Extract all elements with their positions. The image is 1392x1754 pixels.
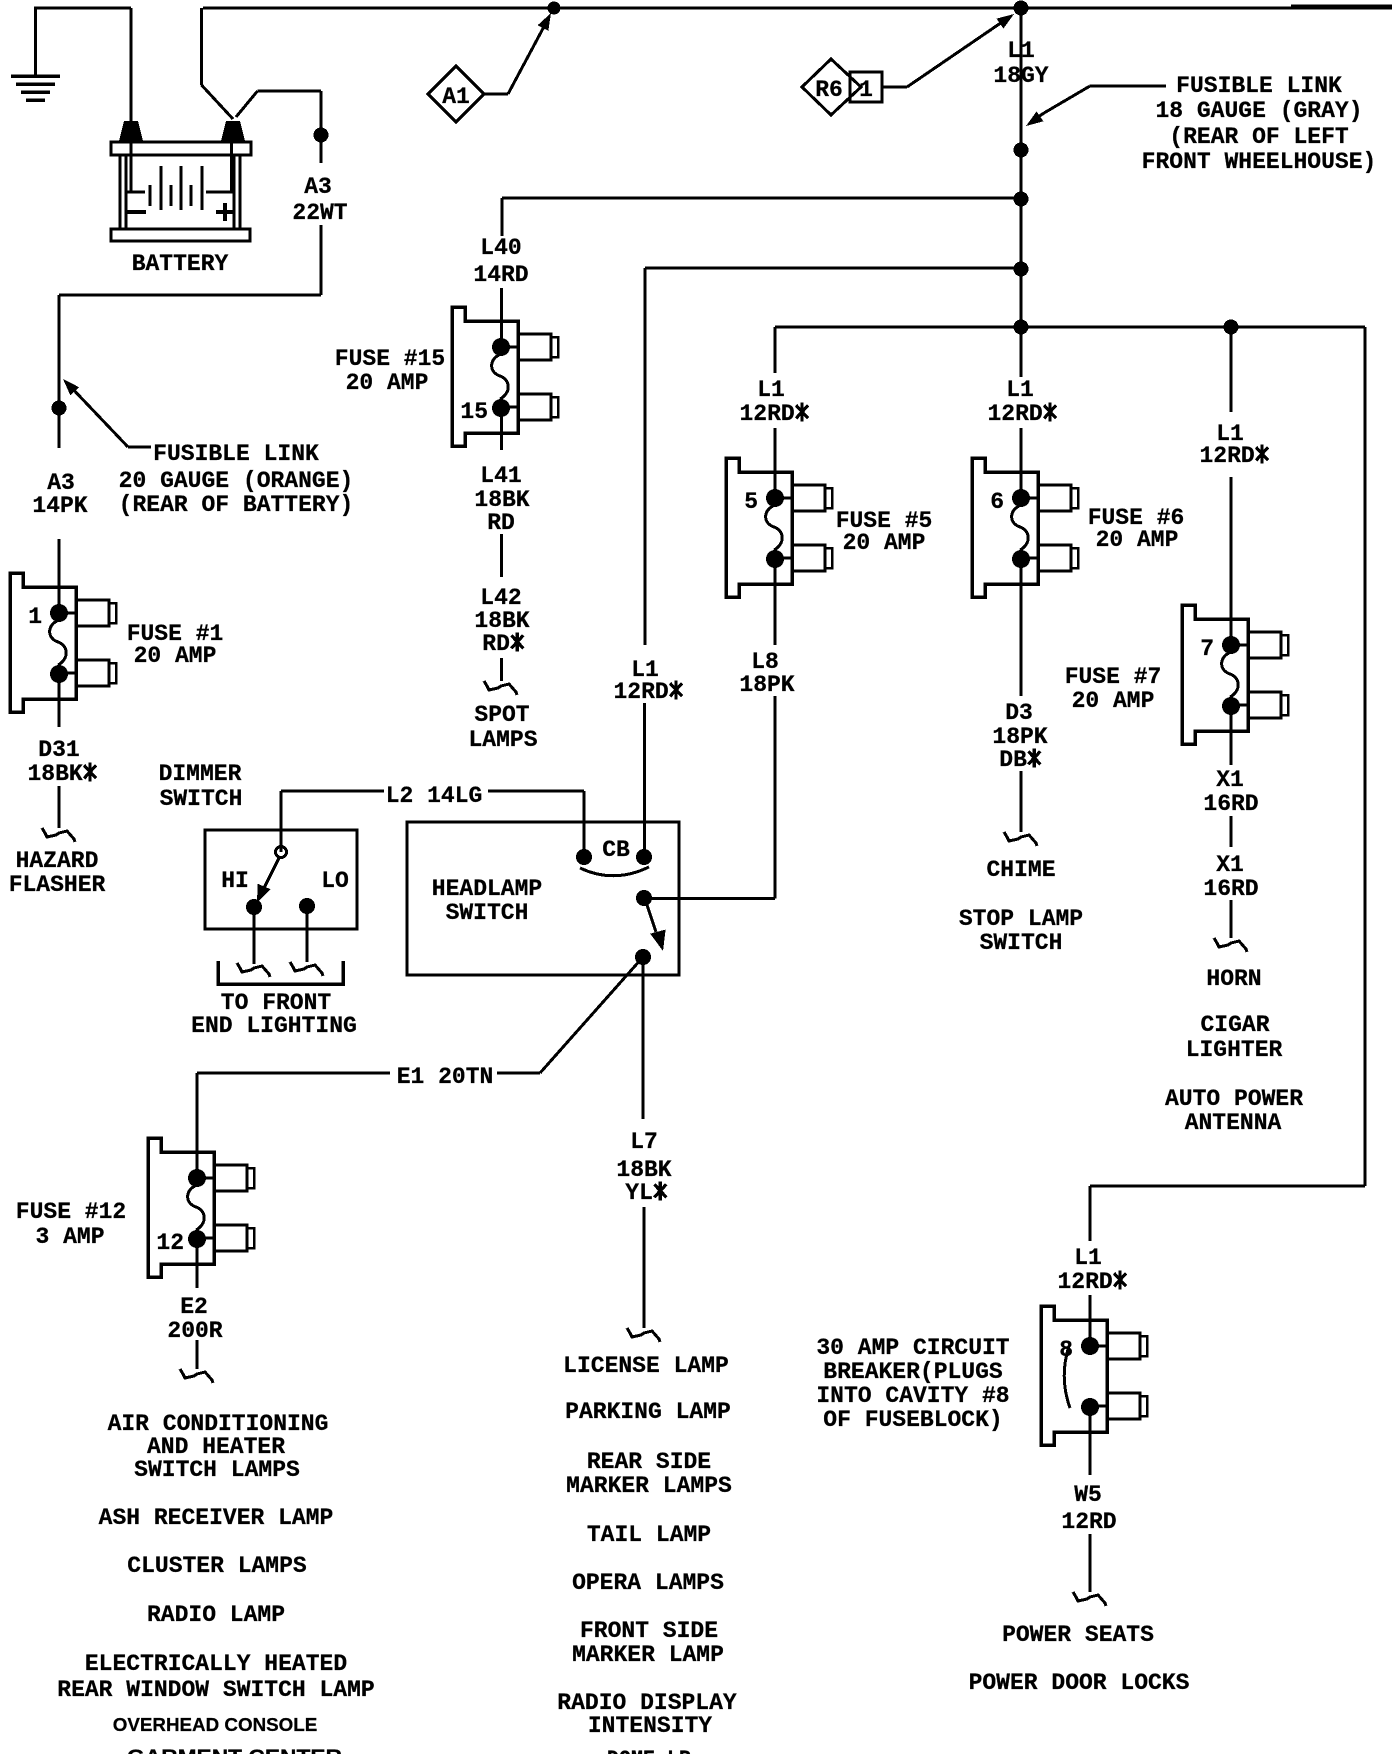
fusible link 20 gauge callout leader bbox=[128, 446, 151, 449]
wire D31 tail bbox=[58, 786, 61, 828]
svg-text:15: 15 bbox=[460, 399, 488, 425]
svg-text:FUSIBLE LINK: FUSIBLE LINK bbox=[153, 441, 319, 467]
svg-text:HEADLAMP: HEADLAMP bbox=[432, 876, 542, 902]
fuse #5 in fuseblock cavity 5 bbox=[726, 458, 832, 597]
fuse #12 in fuseblock cavity 12 bbox=[148, 1138, 254, 1277]
wire E1 into fuse 12 bbox=[196, 1073, 199, 1178]
svg-text:CIGAR: CIGAR bbox=[1200, 1012, 1269, 1038]
wire X1 tail bbox=[1230, 900, 1233, 938]
svg-text:FUSE #15: FUSE #15 bbox=[335, 346, 445, 372]
svg-text:L1: L1 bbox=[757, 377, 785, 403]
wire L2 14LG run right segment bbox=[488, 790, 584, 793]
wire X1 segment bbox=[1230, 816, 1233, 847]
svg-text:TAIL LAMP: TAIL LAMP bbox=[587, 1522, 711, 1548]
wire L40 into fuse 15 bbox=[500, 288, 503, 347]
svg-text:E1 20TN: E1 20TN bbox=[397, 1064, 494, 1090]
wire D31 from fuse 1 bbox=[58, 674, 61, 727]
svg-text:OF FUSEBLOCK): OF FUSEBLOCK) bbox=[823, 1407, 1002, 1433]
svg-text:14RD: 14RD bbox=[473, 262, 528, 288]
wire drop to fuse 6 bbox=[1020, 327, 1023, 373]
svg-text:1: 1 bbox=[859, 77, 873, 103]
svg-text:STOP LAMP: STOP LAMP bbox=[959, 906, 1083, 932]
dimmer switch common contact bbox=[276, 847, 287, 858]
dimmer switch blade arrow bbox=[264, 858, 279, 888]
svg-text:HORN: HORN bbox=[1206, 966, 1261, 992]
svg-text:MARKER LAMPS: MARKER LAMPS bbox=[566, 1473, 732, 1499]
svg-text:OVERHEAD CONSOLE: OVERHEAD CONSOLE bbox=[113, 1714, 318, 1735]
svg-text:L1: L1 bbox=[1007, 38, 1035, 64]
svg-text:GARMENT CENTER: GARMENT CENTER bbox=[127, 1746, 342, 1754]
fusible link 18 gauge callout leader bbox=[1090, 85, 1166, 88]
wire top run right jog bbox=[1291, 5, 1392, 8]
svg-text:ANTENNA: ANTENNA bbox=[1185, 1110, 1282, 1136]
wire drop to fuse 7 bbox=[1230, 327, 1233, 412]
svg-text:16RD: 16RD bbox=[1203, 791, 1258, 817]
wire L40 drop bbox=[501, 198, 504, 236]
svg-text:ELECTRICALLY HEATED: ELECTRICALLY HEATED bbox=[85, 1651, 347, 1677]
connector R6 pin 1 bbox=[802, 59, 882, 115]
svg-text:CB: CB bbox=[602, 837, 630, 863]
svg-text:12RD: 12RD bbox=[739, 401, 794, 427]
svg-text:HI: HI bbox=[221, 868, 249, 894]
fuse #1 in fuseblock cavity 1 bbox=[10, 573, 116, 712]
svg-text:ASH RECEIVER LAMP: ASH RECEIVER LAMP bbox=[99, 1505, 334, 1531]
dimmer switch box bbox=[205, 830, 357, 929]
wire battery positive diagonal bbox=[202, 85, 234, 119]
wire A3 22WT drop lower bbox=[320, 225, 323, 295]
svg-text:SWITCH: SWITCH bbox=[160, 786, 243, 812]
wire battery negative to ground, top run bbox=[34, 7, 131, 10]
svg-text:16RD: 16RD bbox=[1203, 876, 1258, 902]
svg-text:200R: 200R bbox=[167, 1318, 222, 1344]
svg-text:POWER SEATS: POWER SEATS bbox=[1002, 1622, 1154, 1648]
junction on A3 22WT bbox=[314, 128, 329, 143]
svg-text:12RD: 12RD bbox=[613, 679, 668, 705]
wire from LO contact bbox=[306, 914, 309, 962]
wire L2 14LG run left segment bbox=[281, 790, 384, 793]
svg-text:REAR SIDE: REAR SIDE bbox=[587, 1449, 711, 1475]
wire L8 drop bbox=[774, 696, 777, 899]
svg-text:L40: L40 bbox=[480, 235, 521, 261]
connector break to hazard flasher bbox=[42, 828, 75, 842]
svg-text:20 AMP: 20 AMP bbox=[1096, 527, 1179, 553]
wire A3 22WT diagonal from positive post bbox=[236, 91, 258, 117]
wire A3 run to left bbox=[59, 294, 321, 297]
svg-text:DB: DB bbox=[999, 747, 1027, 773]
svg-text:D3: D3 bbox=[1005, 700, 1033, 726]
dimmer HI contact bbox=[246, 899, 262, 915]
headlamp switch circuit breaker arc bbox=[580, 867, 649, 876]
wire L1 12RD* run left to breaker bbox=[1090, 1185, 1365, 1188]
node splice at top bus (A1) bbox=[548, 2, 561, 15]
wire into fuse 6 bbox=[1020, 428, 1023, 498]
wire W5 tail bbox=[1089, 1534, 1092, 1592]
svg-text:LO: LO bbox=[321, 868, 349, 894]
connector break LO to front end lighting bbox=[290, 962, 323, 976]
headlamp switch CB terminal right bbox=[636, 849, 652, 865]
svg-text:7: 7 bbox=[1200, 636, 1214, 662]
fuse #15 in fuseblock cavity 15 bbox=[452, 307, 558, 446]
svg-text:18PK: 18PK bbox=[739, 672, 794, 698]
wire E1 20TN right segment bbox=[497, 1072, 540, 1075]
wire L41 from fuse 15 bbox=[500, 408, 503, 450]
svg-text:RADIO LAMP: RADIO LAMP bbox=[147, 1602, 285, 1628]
wire E2 from fuse 12 bbox=[196, 1239, 199, 1288]
wire E2 tail bbox=[196, 1340, 199, 1369]
wire L1 main bus vertical bbox=[1020, 8, 1023, 377]
svg-text:D31: D31 bbox=[38, 737, 79, 763]
wire L1 12RD* drop to breaker bbox=[1089, 1186, 1092, 1241]
wire down to battery negative post bbox=[130, 8, 133, 123]
wire W5 from breaker bbox=[1089, 1407, 1092, 1475]
svg-text:W5: W5 bbox=[1074, 1482, 1102, 1508]
svg-text:FRONT WHEELHOUSE): FRONT WHEELHOUSE) bbox=[1142, 149, 1377, 175]
svg-text:FLASHER: FLASHER bbox=[9, 872, 106, 898]
svg-text:12RD: 12RD bbox=[1199, 443, 1254, 469]
connector A1 bbox=[428, 66, 484, 122]
wire D3 from fuse 6 bbox=[1020, 559, 1023, 696]
svg-text:A3: A3 bbox=[304, 174, 332, 200]
svg-text:18BK: 18BK bbox=[27, 761, 82, 787]
fuse #6 in fuseblock cavity 6 bbox=[972, 458, 1078, 597]
svg-text:12RD: 12RD bbox=[1061, 1509, 1116, 1535]
svg-text:18GY: 18GY bbox=[993, 63, 1048, 89]
junction L1 to headlamp switch feed bbox=[1014, 262, 1029, 277]
svg-text:OPERA LAMPS: OPERA LAMPS bbox=[572, 1570, 724, 1596]
svg-text:YL: YL bbox=[625, 1180, 653, 1206]
connector break to power seats bbox=[1073, 1592, 1106, 1606]
connector break to horn bbox=[1214, 938, 1247, 952]
svg-text:L7: L7 bbox=[630, 1129, 658, 1155]
svg-text:SWITCH: SWITCH bbox=[980, 930, 1063, 956]
svg-text:CHIME: CHIME bbox=[986, 857, 1055, 883]
svg-text:L1: L1 bbox=[1006, 377, 1034, 403]
wire drop to fuse 5 bbox=[774, 327, 777, 373]
svg-text:(REAR OF BATTERY): (REAR OF BATTERY) bbox=[119, 492, 354, 518]
svg-text:30 AMP CIRCUIT: 30 AMP CIRCUIT bbox=[816, 1335, 1009, 1361]
svg-text:X1: X1 bbox=[1216, 767, 1244, 793]
svg-text:20 GAUGE (ORANGE): 20 GAUGE (ORANGE) bbox=[119, 468, 354, 494]
svg-text:(REAR OF LEFT: (REAR OF LEFT bbox=[1169, 124, 1349, 150]
junction on A3 14PK bbox=[52, 401, 67, 416]
junction L1 to L40 bbox=[1014, 192, 1029, 207]
svg-text:INTENSITY: INTENSITY bbox=[588, 1713, 712, 1739]
wire A3 14PK drop bbox=[58, 295, 61, 448]
svg-text:FUSE #7: FUSE #7 bbox=[1065, 664, 1162, 690]
junction L1 at fuse row bus bbox=[1014, 320, 1029, 335]
wire L1 12RD* run to headlamp switch bbox=[645, 267, 1021, 270]
svg-text:L1: L1 bbox=[1074, 1245, 1102, 1271]
wire A3 22WT horizontal bbox=[258, 90, 322, 93]
wire L1 12RD* drop to headlamp switch bbox=[644, 268, 647, 645]
svg-text:DIMMER: DIMMER bbox=[159, 761, 242, 787]
svg-text:12RD: 12RD bbox=[1057, 1269, 1112, 1295]
wire into circuit breaker bbox=[1089, 1295, 1092, 1346]
connector break HI to front end lighting bbox=[237, 963, 270, 977]
headlamp switch tail lamp terminal bbox=[635, 949, 651, 965]
node main bus top bbox=[1014, 1, 1029, 16]
wire L42 tail bbox=[500, 658, 503, 681]
bracket to front end lighting bbox=[218, 961, 343, 984]
connector break to spot lamps bbox=[484, 681, 517, 695]
wire L40 top run bbox=[502, 197, 1021, 200]
svg-text:SPOT: SPOT bbox=[474, 702, 529, 728]
svg-text:LICENSE LAMP: LICENSE LAMP bbox=[563, 1353, 729, 1379]
battery bbox=[111, 121, 251, 241]
wire main feed bus, top run bbox=[203, 7, 1392, 10]
wire L2 14LG riser from dimmer bbox=[280, 791, 283, 852]
connector break to lamps bbox=[627, 1328, 660, 1342]
leader from R6 to bus bbox=[882, 86, 907, 89]
leader from A1 to bus bbox=[484, 93, 508, 96]
svg-text:E2: E2 bbox=[180, 1294, 208, 1320]
svg-text:INTO CAVITY #8: INTO CAVITY #8 bbox=[816, 1383, 1009, 1409]
junction fuse-row bus to fuse 7 bbox=[1224, 320, 1239, 335]
wire L41/L42 segment bbox=[500, 534, 503, 577]
svg-text:A1: A1 bbox=[442, 84, 470, 110]
svg-text:RD: RD bbox=[487, 510, 515, 536]
svg-text:SWITCH: SWITCH bbox=[446, 900, 529, 926]
wire L2 14LG drop to headlamp switch CB bbox=[583, 791, 586, 857]
wire L8 into headlamp switch bbox=[647, 897, 775, 900]
wire E1 20TN left run bbox=[197, 1072, 390, 1075]
svg-text:AUTO POWER: AUTO POWER bbox=[1165, 1086, 1303, 1112]
svg-text:5: 5 bbox=[744, 489, 758, 515]
svg-text:18 GAUGE (GRAY): 18 GAUGE (GRAY) bbox=[1155, 98, 1362, 124]
wire from HI contact bbox=[253, 915, 256, 964]
wire L7 tail bbox=[643, 1207, 646, 1328]
headlamp switch box bbox=[407, 822, 679, 975]
connector break to lamp loads bbox=[180, 1369, 213, 1383]
svg-text:6: 6 bbox=[990, 489, 1004, 515]
wire into fuse 7 bbox=[1230, 477, 1233, 645]
svg-text:20 AMP: 20 AMP bbox=[134, 643, 217, 669]
svg-text:L41: L41 bbox=[480, 463, 521, 489]
wire L1 12RD* far-right drop bbox=[1364, 327, 1367, 1186]
svg-text:CLUSTER LAMPS: CLUSTER LAMPS bbox=[127, 1553, 307, 1579]
wire D3 tail bbox=[1020, 771, 1023, 832]
svg-text:FRONT SIDE: FRONT SIDE bbox=[580, 1618, 718, 1644]
svg-text:1: 1 bbox=[28, 604, 42, 630]
headlamp switch wiper arrow bbox=[647, 905, 656, 932]
wire battery positive riser bbox=[200, 8, 203, 85]
svg-text:20 AMP: 20 AMP bbox=[1072, 688, 1155, 714]
svg-text:FUSIBLE LINK: FUSIBLE LINK bbox=[1176, 73, 1342, 99]
svg-text:LIGHTER: LIGHTER bbox=[1186, 1037, 1283, 1063]
wire L8 from fuse 5 bbox=[774, 559, 777, 645]
svg-text:20 AMP: 20 AMP bbox=[346, 370, 429, 396]
svg-text:22WT: 22WT bbox=[292, 200, 347, 226]
svg-text:DOME LP: DOME LP bbox=[607, 1747, 691, 1754]
svg-text:POWER DOOR LOCKS: POWER DOOR LOCKS bbox=[969, 1670, 1190, 1696]
wire L1 into headlamp switch CB bbox=[643, 703, 646, 857]
wire into fuse 5 bbox=[774, 428, 777, 498]
svg-text:R6: R6 bbox=[815, 77, 843, 103]
svg-text:14PK: 14PK bbox=[32, 493, 87, 519]
wire A3 into fuse 1 bbox=[58, 539, 61, 613]
svg-text:RD: RD bbox=[482, 631, 510, 657]
dimmer LO contact bbox=[299, 898, 315, 914]
wire ground drop bbox=[34, 8, 37, 76]
headlamp switch CB terminal left bbox=[576, 849, 592, 865]
ground bbox=[11, 76, 60, 100]
wire X1 from fuse 7 bbox=[1230, 706, 1233, 765]
svg-text:PARKING LAMP: PARKING LAMP bbox=[565, 1399, 731, 1425]
svg-text:FUSE #12: FUSE #12 bbox=[16, 1199, 126, 1225]
junction L1 at fusible link bbox=[1014, 143, 1029, 158]
svg-text:3 AMP: 3 AMP bbox=[35, 1224, 104, 1250]
svg-text:8: 8 bbox=[1059, 1337, 1073, 1363]
fuse #7 in fuseblock cavity 7 bbox=[1182, 605, 1288, 744]
headlamp switch battery terminal bbox=[636, 890, 652, 906]
svg-text:MARKER LAMP: MARKER LAMP bbox=[572, 1642, 724, 1668]
svg-text:LAMPS: LAMPS bbox=[468, 727, 537, 753]
wire fuse-row bus bbox=[775, 326, 1365, 329]
wire A3 22WT drop upper bbox=[320, 91, 323, 163]
svg-text:REAR WINDOW SWITCH LAMP: REAR WINDOW SWITCH LAMP bbox=[57, 1677, 374, 1703]
svg-text:SWITCH LAMPS: SWITCH LAMPS bbox=[134, 1457, 300, 1483]
wire L7 from headlamp switch bbox=[642, 962, 645, 1119]
30 amp circuit breaker in cavity 8 bbox=[1041, 1306, 1147, 1445]
connector break to chime / stop lamp switch bbox=[1004, 832, 1037, 846]
svg-text:12RD: 12RD bbox=[987, 401, 1042, 427]
wire E1 20TN diagonal from headlamp switch bbox=[540, 957, 643, 1073]
svg-text:END LIGHTING: END LIGHTING bbox=[191, 1013, 357, 1039]
svg-text:X1: X1 bbox=[1216, 852, 1244, 878]
svg-text:HAZARD: HAZARD bbox=[16, 848, 99, 874]
svg-text:12: 12 bbox=[156, 1230, 184, 1256]
svg-text:L2 14LG: L2 14LG bbox=[386, 783, 483, 809]
svg-text:BATTERY: BATTERY bbox=[132, 251, 229, 277]
svg-text:BREAKER(PLUGS: BREAKER(PLUGS bbox=[823, 1359, 1003, 1385]
svg-text:20 AMP: 20 AMP bbox=[843, 530, 926, 556]
